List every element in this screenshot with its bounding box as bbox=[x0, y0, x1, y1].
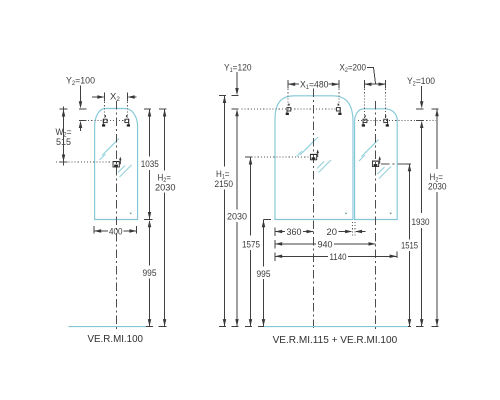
centerline mirror 115 bbox=[313, 89, 315, 331]
svg-text:Y1=120: Y1=120 bbox=[224, 63, 252, 75]
dash-dot leader small middle bracket bbox=[381, 163, 409, 165]
dimension 1930 lower bbox=[421, 228, 423, 326]
dimension H2 lower bbox=[164, 193, 166, 327]
dimension 1575 line bbox=[250, 157, 252, 236]
dimension X2 right line arrows bbox=[364, 83, 385, 85]
svg-text:2030: 2030 bbox=[155, 182, 176, 193]
dimension H2 right line bbox=[436, 109, 438, 169]
svg-text:1140: 1140 bbox=[330, 252, 347, 263]
bracket dotted line middle bbox=[56, 161, 112, 163]
dimension 1515 lower bbox=[409, 251, 411, 326]
mirror 115 hatch upper bbox=[297, 137, 319, 157]
riser tick 1140 end bbox=[396, 251, 398, 258]
dimension 940 row bbox=[274, 240, 276, 249]
floor line left bbox=[69, 326, 147, 328]
extension dotted X2r right bbox=[385, 86, 387, 118]
dimension 400 right tick bbox=[136, 226, 138, 233]
svg-text:995: 995 bbox=[257, 269, 271, 280]
wall bracket middle bbox=[113, 157, 122, 167]
dimension 1140 row bbox=[274, 252, 276, 261]
dimension 400 line right arrow bbox=[124, 230, 137, 232]
dimension X2 right arrow bbox=[129, 96, 137, 98]
mirror 115 reflection dash bbox=[345, 213, 348, 215]
extension line X2 right tick bbox=[127, 93, 129, 102]
dimension H2 right lower bbox=[436, 192, 438, 326]
extension dotted X2 right bbox=[127, 99, 129, 118]
leader X2 bbox=[367, 67, 376, 83]
svg-text:Y2=100: Y2=100 bbox=[407, 76, 435, 88]
wall bracket small top-left bbox=[362, 115, 367, 126]
dimension H1 lower bbox=[224, 190, 226, 327]
mirror VE.R.MI.100 small outline bbox=[355, 109, 398, 220]
dimension Y2 right / 1930 line bbox=[421, 86, 423, 105]
mirror bottom tick bbox=[144, 219, 153, 221]
svg-text:1515: 1515 bbox=[401, 240, 418, 251]
mirror small hatch upper bbox=[359, 140, 379, 162]
dotted bracket line small mirror bbox=[358, 120, 436, 122]
dimension Y1 line / 2030 line bbox=[236, 72, 238, 92]
svg-text:360: 360 bbox=[287, 227, 302, 238]
mirror glass hatch lower bbox=[118, 165, 132, 177]
dimension 400 left tick bbox=[93, 226, 95, 233]
mirror glass hatch upper bbox=[100, 139, 120, 161]
wall bracket 115 top-right bbox=[336, 104, 341, 115]
dimension W2 line bbox=[63, 107, 65, 166]
mirror small reflection mark bbox=[390, 213, 393, 215]
svg-text:2030: 2030 bbox=[227, 212, 247, 223]
dimension H1 line bbox=[224, 96, 226, 167]
svg-text:X1=480: X1=480 bbox=[300, 80, 329, 92]
wall bracket 115 top-left bbox=[286, 104, 291, 115]
mirror small reflection dash bbox=[130, 213, 133, 215]
dimension 995 lower bbox=[149, 279, 151, 327]
svg-text:940: 940 bbox=[318, 240, 333, 251]
extension dotted X2r left bbox=[363, 86, 365, 118]
wall bracket top-left bbox=[102, 115, 107, 126]
dimension 1035 line upper bbox=[149, 109, 151, 157]
floor tick under H2 bbox=[159, 326, 167, 328]
svg-text:20: 20 bbox=[327, 227, 338, 238]
dimension 995 line right bbox=[264, 219, 272, 221]
floor tick under 995 bbox=[144, 326, 153, 328]
gap extension ticks 20 bbox=[351, 222, 353, 237]
wall bracket top-right bbox=[125, 115, 130, 126]
svg-text:Y2=100: Y2=100 bbox=[66, 76, 95, 88]
dimension 995 upper arrow bbox=[148, 220, 152, 227]
svg-text:1930: 1930 bbox=[412, 217, 430, 228]
extension dotted X2 left bbox=[104, 99, 106, 118]
dimension 400 line left arrow bbox=[94, 230, 108, 232]
mirror VE.R.MI.100 outline bbox=[95, 109, 138, 220]
svg-text:1035: 1035 bbox=[141, 159, 159, 170]
dimension H2 line bbox=[164, 109, 166, 171]
svg-text:1575: 1575 bbox=[242, 240, 260, 251]
mirror 115 hatch lower bbox=[317, 160, 331, 173]
dotted bracket line top mirror115 bbox=[242, 108, 338, 110]
svg-text:VE.R.MI.115 + VE.R.MI.100: VE.R.MI.115 + VE.R.MI.100 bbox=[273, 335, 398, 346]
bracket dotted line top bbox=[85, 120, 126, 122]
wall bracket small middle bbox=[372, 156, 381, 166]
dotted leader middle bracket 115 bbox=[252, 156, 310, 158]
svg-text:VE.R.MI.100: VE.R.MI.100 bbox=[88, 334, 144, 345]
wall bracket 115 middle bbox=[310, 149, 319, 159]
mirror VE.R.MI.115 outline bbox=[275, 96, 353, 220]
dimension X1 ticks bbox=[287, 80, 289, 89]
dimension X1 line with arrows bbox=[288, 83, 299, 85]
dimension Y2 line bbox=[80, 86, 82, 105]
dimension 1515 line bbox=[405, 163, 412, 165]
dimension 1035 line lower with arrow bbox=[149, 170, 151, 220]
svg-text:X2=200: X2=200 bbox=[340, 63, 367, 75]
svg-text:400: 400 bbox=[109, 227, 123, 238]
svg-text:995: 995 bbox=[143, 268, 157, 279]
extension dotted X1 left bbox=[287, 86, 289, 107]
dimension 360 row bbox=[274, 227, 276, 236]
centerline left mirror bbox=[115, 101, 117, 332]
svg-text:2030: 2030 bbox=[428, 182, 447, 193]
dimension 1575 lower bbox=[250, 250, 252, 326]
dimension X2 left arrow bbox=[92, 96, 104, 98]
dimension 2030 lower bbox=[236, 222, 238, 326]
centerline small mirror bbox=[375, 101, 377, 331]
svg-text:2150: 2150 bbox=[215, 179, 234, 190]
dimension X2 right ticks bbox=[363, 80, 365, 89]
mirror small hatch lower bbox=[378, 167, 392, 179]
wall bracket small top-right bbox=[384, 115, 389, 126]
dimension 995 right lower bbox=[263, 279, 265, 326]
extension dotted X1 right bbox=[338, 86, 340, 107]
extension line X2 left tick bbox=[104, 93, 106, 102]
floor line right bbox=[264, 326, 408, 328]
